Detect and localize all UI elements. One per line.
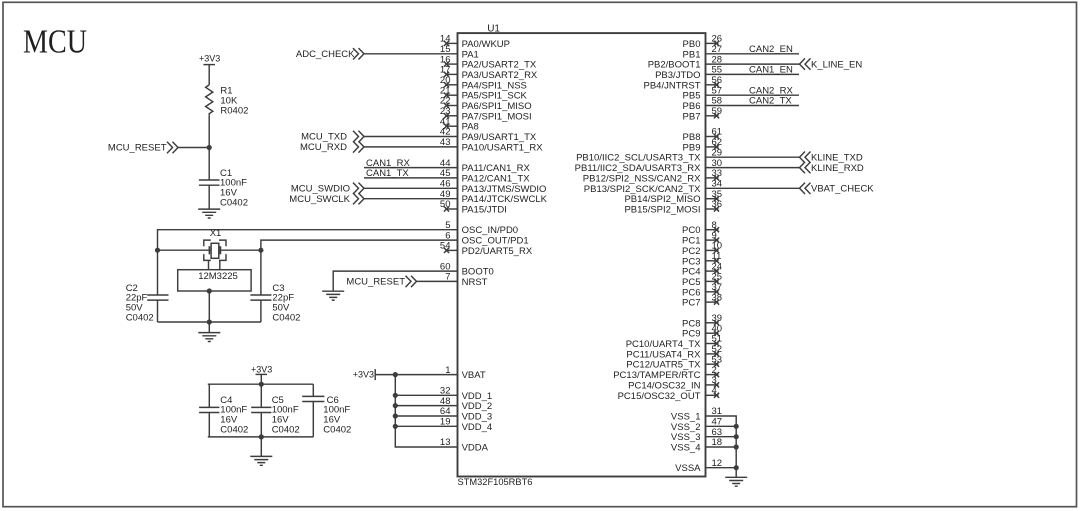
capacitor C4 (208, 384, 210, 407)
svg-text:VBAT: VBAT (462, 370, 486, 381)
capacitor C5 (260, 384, 262, 407)
wire VSS branch row 38 (706, 436, 737, 438)
wire: stub pin 38 (706, 301, 719, 303)
no-connect X pin 10 (714, 248, 719, 253)
no-connect X pin 2 (714, 372, 719, 377)
wire: stub pin 54 (447, 249, 458, 251)
wire: stub pin 59 (706, 115, 719, 117)
wire box to gnd bus (207, 288, 212, 293)
node MCU_SWCLK wire to pin 49 (353, 193, 364, 204)
svg-text:MCU_RESET: MCU_RESET (346, 277, 405, 288)
resistor R1 zigzag (206, 85, 213, 115)
svg-text:STM32F105RBT6: STM32F105RBT6 (458, 477, 533, 487)
wire crystal gnd bus (158, 321, 261, 323)
wire: stub pin 8 (706, 229, 719, 231)
ground (C1) (198, 209, 220, 218)
svg-text:KLINE_TXD: KLINE_TXD (811, 152, 863, 163)
no-connect X pin 24 (714, 269, 719, 274)
no-connect X pin 51 (714, 341, 719, 346)
svg-text:NRST: NRST (462, 277, 488, 288)
node MCU_RESET (at NRST): chevron + wire to pin 7 (406, 276, 417, 287)
wire +3V3 to VBAT pin 1 (375, 374, 457, 376)
12M3225 box (178, 270, 251, 291)
no-connect X pin 8 (714, 227, 719, 232)
ground (crystal) (198, 333, 220, 342)
wire: stub pin 23 (447, 115, 458, 117)
wire: stub pin 51 (706, 343, 719, 345)
no-connect X pin 38 (714, 300, 719, 305)
no-connect X pin 37 (714, 289, 719, 294)
no-connect X pin 52 (714, 351, 719, 356)
wire: stub pin 9 (706, 239, 719, 241)
junction dot crystal left (155, 248, 160, 253)
no-connect X pin 20 (444, 82, 449, 87)
svg-text:PA15/JTDI: PA15/JTDI (462, 205, 507, 216)
wire R1 to node (208, 115, 210, 180)
svg-text:C0402: C0402 (220, 425, 248, 436)
svg-text:PD2/UART5_RX: PD2/UART5_RX (462, 246, 533, 257)
capacitor C2 (157, 250, 159, 295)
wire: stub pin 3 (706, 384, 719, 386)
capacitor C3 (260, 250, 262, 295)
svg-text:PC14/OSC32_IN: PC14/OSC32_IN (628, 380, 700, 391)
capacitor C6 (312, 384, 314, 396)
svg-text:PA9/USART1_TX: PA9/USART1_TX (462, 132, 537, 143)
no-connect X pin 14 (444, 41, 449, 46)
svg-text:PA10/USART1_RX: PA10/USART1_RX (462, 142, 544, 153)
no-connect X pin 17 (444, 72, 449, 77)
svg-text:VDDA: VDDA (462, 443, 489, 454)
svg-text:12M3225: 12M3225 (198, 271, 238, 282)
svg-text:PC7: PC7 (682, 298, 700, 309)
wire crystal row (158, 249, 261, 251)
svg-text:U1: U1 (487, 24, 500, 35)
wire: stub pin 35 (706, 198, 719, 200)
svg-text:CAN1_TX: CAN1_TX (366, 168, 409, 179)
svg-text:KLINE_RXD: KLINE_RXD (811, 163, 864, 174)
wire VDD branch row 36 (395, 415, 457, 417)
power +3V3 (VBAT): bar symbol (374, 369, 376, 380)
svg-text:PC12/UATR5_TX: PC12/UATR5_TX (626, 360, 701, 371)
node CAN1_RX wire to pin 44 (364, 167, 458, 169)
wire: stub pin 40 (706, 332, 719, 334)
svg-text:PA13/JTMS/SWDIO: PA13/JTMS/SWDIO (462, 184, 547, 195)
crystal gnd stubs (208, 260, 210, 269)
op-amp U1 IC body STM32F105RBT6 (458, 33, 706, 476)
svg-text:PB13/SPI2_SCK/CAN2_TX: PB13/SPI2_SCK/CAN2_TX (584, 184, 701, 195)
svg-text:PB15/SPI2_MOSI: PB15/SPI2_MOSI (624, 205, 700, 216)
wire: stub pin 33 (706, 177, 719, 179)
node MCU_RXD wire to pin 43 (353, 141, 364, 152)
wire: stub pin 26 (706, 42, 719, 44)
wire: stub pin 52 (706, 353, 719, 355)
power +3V3 (R1 top) (203, 64, 215, 66)
no-connect X pin 54 (444, 248, 449, 253)
node MCU_TXD wire to pin 42 (353, 131, 364, 142)
svg-text:PB8: PB8 (683, 132, 701, 143)
crystal X1 symbol (211, 243, 219, 258)
svg-text:OSC_IN/PD0: OSC_IN/PD0 (462, 225, 518, 236)
no-connect X pin 25 (714, 279, 719, 284)
node KLINE_RXD: wire + chevron pin 30 (706, 167, 800, 169)
node ADC_CHECK: chevron + wire to pin 15 (353, 48, 364, 59)
svg-text:VBAT_CHECK: VBAT_CHECK (811, 184, 874, 195)
svg-text:PC8: PC8 (682, 318, 700, 329)
wire: stub pin 39 (706, 322, 719, 324)
svg-text:VSS_2: VSS_2 (671, 422, 701, 433)
no-connect X pin 22 (444, 103, 449, 108)
crystal package outline corner brackets (204, 240, 226, 260)
no-connect X pin 3 (714, 382, 719, 387)
no-connect X pin 33 (714, 175, 719, 180)
svg-text:C0402: C0402 (126, 313, 154, 324)
no-connect X pin 35 (714, 196, 719, 201)
wire VSS branch row 39 (706, 446, 737, 448)
svg-text:+3V3: +3V3 (251, 364, 272, 374)
svg-text:MCU_SWDIO: MCU_SWDIO (291, 184, 350, 195)
ground (VSS) (725, 477, 747, 486)
wire: stub pin 62 (706, 146, 719, 148)
wire VDD bus vertical (395, 375, 457, 447)
no-connect X pin 23 (444, 113, 449, 118)
no-connect X pin 26 (714, 41, 719, 46)
no-connect X pin 9 (714, 238, 719, 243)
no-connect X pin 53 (714, 362, 719, 367)
capacitor C1 (199, 179, 220, 181)
no-connect X pin 61 (714, 134, 719, 139)
svg-text:PC10/UART4_TX: PC10/UART4_TX (626, 339, 701, 350)
no-connect X pin 59 (714, 113, 719, 118)
power +3V3 (decoupling) (256, 373, 268, 375)
wire top bus (208, 383, 313, 385)
wire bus left end (207, 383, 209, 385)
wire VDD branch row 37 (395, 425, 457, 427)
wire: stub pin 14 (447, 42, 458, 44)
node CAN2_TX wire pin 58 (706, 105, 800, 107)
svg-text:C0402: C0402 (323, 425, 351, 436)
svg-text:PB3/JTDO: PB3/JTDO (655, 70, 700, 81)
no-connect X pin 40 (714, 331, 719, 336)
ground (decoupling) (250, 456, 272, 465)
wire: stub pin 21 (447, 94, 458, 96)
wire BOOT0 pin 60 to ground (333, 271, 457, 291)
svg-text:K_LINE_EN: K_LINE_EN (811, 59, 862, 70)
no-connect X pin 62 (714, 144, 719, 149)
wire: stub pin 20 (447, 84, 458, 86)
svg-text:CAN1_EN: CAN1_EN (749, 65, 793, 76)
wire: stub pin 41 (447, 125, 458, 127)
svg-text:MCU_SWCLK: MCU_SWCLK (289, 194, 350, 205)
wire: stub pin 4 (706, 394, 719, 396)
svg-text:VDD_4: VDD_4 (462, 422, 493, 433)
wire: stub pin 61 (706, 136, 719, 138)
node K_LINE_EN: wire + chevron pin 28 (706, 63, 800, 65)
node CAN1_EN wire pin 55 (706, 73, 800, 75)
node VBAT_CHECK: wire + chevron pin 34 (706, 187, 800, 189)
svg-text:+3V3: +3V3 (353, 369, 374, 379)
svg-text:MCU: MCU (23, 24, 87, 61)
wire VDD branch row 34 (395, 394, 457, 396)
junction dots VDD bus (393, 372, 398, 377)
svg-text:VSSA: VSSA (675, 463, 701, 474)
wire: stub pin 22 (447, 105, 458, 107)
svg-text:PC0: PC0 (682, 225, 700, 236)
wire: stub pin 25 (706, 280, 719, 282)
wire: stub pin 53 (706, 363, 719, 365)
wire: stub pin 36 (706, 208, 719, 210)
wire: stub pin 24 (706, 270, 719, 272)
no-connect X pin 11 (714, 258, 719, 263)
svg-text:PA12/CAN1_TX: PA12/CAN1_TX (462, 173, 531, 184)
wire OSC_IN pin 5 to crystal left (158, 230, 458, 251)
node CAN1_TX wire to pin 45 (364, 177, 458, 179)
no-connect X pin 56 (714, 82, 719, 87)
ground (BOOT0) (322, 291, 344, 300)
wire: stub pin 2 (706, 374, 719, 376)
wire OSC_OUT pin 6 to crystal right (261, 240, 458, 250)
svg-text:ADC_CHECK: ADC_CHECK (296, 49, 355, 60)
no-connect X pin 50 (444, 206, 449, 211)
svg-text:PC15/OSC32_OUT: PC15/OSC32_OUT (618, 391, 701, 402)
junction dot crystal right (258, 248, 263, 253)
svg-text:CAN2_EN: CAN2_EN (749, 44, 793, 55)
no-connect X pin 36 (714, 206, 719, 211)
svg-text:VSS_4: VSS_4 (671, 443, 701, 454)
svg-text:PA0/WKUP: PA0/WKUP (462, 39, 510, 50)
no-connect X pin 21 (444, 93, 449, 98)
no-connect X pin 4 (714, 393, 719, 398)
svg-text:C0402: C0402 (220, 198, 248, 209)
node MCU_SWDIO wire to pin 46 (353, 183, 364, 194)
svg-text:R0402: R0402 (220, 105, 248, 116)
wire VSS bus (706, 416, 737, 477)
svg-text:PB10/IIC2_SCL/USART3_TX: PB10/IIC2_SCL/USART3_TX (576, 153, 701, 164)
wire VSS branch row 37 (706, 425, 737, 427)
svg-text:MCU_RXD: MCU_RXD (300, 142, 347, 153)
wire: stub pin 10 (706, 249, 719, 251)
svg-text:MCU_RESET: MCU_RESET (108, 143, 167, 154)
svg-text:CAN2_TX: CAN2_TX (749, 96, 792, 107)
no-connect X pin 41 (444, 124, 449, 129)
svg-text:PA4/SPI1_NSS: PA4/SPI1_NSS (462, 80, 527, 91)
svg-text:MCU_TXD: MCU_TXD (301, 132, 347, 143)
svg-text:VDD_2: VDD_2 (462, 401, 493, 412)
node MCU_RESET chevron + wire (167, 142, 178, 153)
svg-text:PB0: PB0 (683, 39, 701, 50)
junction dot reset node (207, 145, 212, 150)
node CAN2_EN wire pin 27 (706, 53, 800, 55)
no-connect X pin 16 (444, 62, 449, 67)
node KLINE_TXD: wire + chevron pin 29 (706, 156, 800, 158)
wire VSS branch row 41 (706, 467, 737, 469)
svg-text:PA3/USART2_RX: PA3/USART2_RX (462, 70, 538, 81)
svg-text:PB7: PB7 (683, 111, 701, 122)
svg-text:X1: X1 (210, 228, 222, 239)
svg-text:C0402: C0402 (272, 313, 300, 324)
wire: stub pin 56 (706, 84, 719, 86)
svg-text:PB4/JNTRST: PB4/JNTRST (643, 80, 700, 91)
wire VDD branch row 35 (395, 405, 457, 407)
wire: stub pin 50 (447, 208, 458, 210)
no-connect X pin 39 (714, 320, 719, 325)
wire: stub pin 17 (447, 73, 458, 75)
svg-text:PC2: PC2 (682, 246, 700, 257)
wire bottom bus (208, 436, 313, 438)
svg-text:PB12/SPI2_NSS/CAN2_RX: PB12/SPI2_NSS/CAN2_RX (583, 173, 701, 184)
svg-text:C0402: C0402 (272, 425, 300, 436)
svg-text:PA7/SPI1_MOSI: PA7/SPI1_MOSI (462, 111, 532, 122)
wire: stub pin 16 (447, 63, 458, 65)
wire: stub pin 11 (706, 260, 719, 262)
wire: stub pin 37 (706, 291, 719, 293)
node CAN2_RX wire pin 57 (706, 94, 800, 96)
svg-text:+3V3: +3V3 (199, 54, 220, 64)
svg-text:PC5: PC5 (682, 277, 700, 288)
